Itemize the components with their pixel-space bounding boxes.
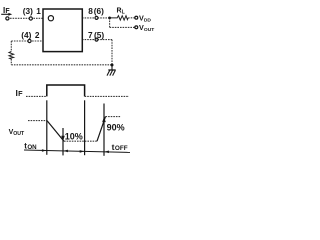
svg-text:10%: 10% <box>65 132 83 142</box>
svg-text:RL: RL <box>117 7 126 15</box>
svg-text:IF: IF <box>3 6 10 15</box>
svg-text:2: 2 <box>35 30 40 40</box>
svg-text:tON: tON <box>24 142 37 151</box>
svg-text:8: 8 <box>88 6 93 16</box>
svg-text:1: 1 <box>36 6 41 16</box>
svg-text:7: 7 <box>88 30 93 40</box>
svg-text:IF: IF <box>16 88 24 98</box>
svg-text:(6): (6) <box>94 6 104 16</box>
svg-text:90%: 90% <box>107 122 125 132</box>
svg-text:(3): (3) <box>23 6 33 16</box>
svg-text:VOUT: VOUT <box>9 129 25 137</box>
svg-text:(4): (4) <box>21 30 31 40</box>
svg-text:(5): (5) <box>94 30 104 40</box>
